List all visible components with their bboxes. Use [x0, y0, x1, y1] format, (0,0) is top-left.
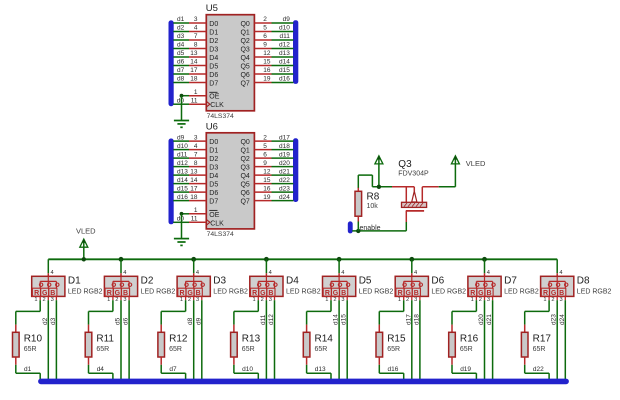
svg-text:d4: d4 [177, 42, 185, 49]
svg-text:9: 9 [263, 160, 267, 167]
svg-text:D5: D5 [209, 63, 218, 70]
svg-text:FDV304P: FDV304P [398, 170, 429, 177]
svg-text:2: 2 [263, 16, 267, 23]
svg-text:10k: 10k [367, 203, 379, 210]
svg-text:1: 1 [34, 297, 37, 303]
resistor R15 body [376, 325, 383, 365]
D2 bottom pin numbers 1 2 3 [107, 297, 126, 303]
svg-text:d6: d6 [177, 59, 185, 66]
svg-text:R15: R15 [387, 333, 406, 344]
svg-text:74LS374: 74LS374 [207, 113, 234, 120]
U5 pin 8 D3 wire, net d4 [173, 42, 206, 49]
svg-text:7: 7 [194, 151, 198, 158]
svg-text:D3: D3 [209, 46, 218, 53]
U5 pin 3 D0 wire, net d1 [173, 16, 206, 23]
svg-text:R: R [179, 290, 184, 297]
svg-text:Q1: Q1 [240, 29, 249, 36]
wire D6 pin 1 to resistor R15, net d16 [379, 296, 403, 324]
svg-text:R12: R12 [169, 333, 188, 344]
svg-text:6: 6 [263, 33, 267, 40]
U5 pin name OE with overbar [209, 92, 219, 100]
ground symbol below U6 [174, 239, 189, 246]
svg-text:15: 15 [263, 59, 271, 66]
svg-text:7: 7 [194, 33, 198, 40]
svg-text:d9: d9 [195, 317, 202, 325]
svg-text:R16: R16 [460, 333, 479, 344]
resistor R14 body [303, 325, 310, 365]
svg-text:Q6: Q6 [240, 72, 249, 79]
ground symbol below U5 [174, 121, 189, 128]
svg-text:4: 4 [487, 270, 490, 276]
resistor R10 body [13, 325, 20, 365]
svg-text:4: 4 [123, 270, 126, 276]
wire D4 pin 2 to bus, net d11 [265, 296, 267, 380]
svg-text:16: 16 [263, 67, 271, 74]
wire R10 bottom to bus, net d1 [16, 365, 40, 380]
U5 pin 19 Q7 wire, net d16 [254, 76, 293, 83]
svg-text:Q2: Q2 [240, 38, 249, 45]
svg-text:3: 3 [194, 16, 198, 23]
svg-text:D4: D4 [209, 55, 218, 62]
U6 right output bus [293, 139, 298, 202]
svg-text:1: 1 [398, 297, 401, 303]
svg-text:1: 1 [194, 207, 198, 214]
svg-text:D7: D7 [504, 276, 517, 287]
svg-text:d16: d16 [177, 194, 188, 201]
svg-text:d8: d8 [177, 76, 185, 83]
svg-text:D6: D6 [431, 276, 444, 287]
resistor R16 body [449, 325, 456, 365]
svg-text:G: G [478, 290, 484, 297]
svg-text:14: 14 [190, 59, 198, 66]
svg-text:G: G [187, 290, 193, 297]
svg-text:LED RGB2: LED RGB2 [286, 289, 321, 296]
svg-text:d0: d0 [177, 97, 185, 104]
power flag arrow VLED at Q3 drain [451, 156, 459, 164]
svg-text:65R: 65R [460, 346, 473, 353]
wire D3 pin 3 to bus, net d9 [201, 296, 203, 380]
svg-text:3: 3 [196, 297, 199, 303]
U5 pin 6 Q2 wire, net d11 [254, 33, 293, 40]
svg-text:5: 5 [263, 143, 267, 150]
wire rail to D6 pin 4 [412, 259, 417, 276]
wire rail to D1 pin 4 [48, 259, 53, 276]
svg-text:Q7: Q7 [240, 80, 249, 87]
wire rail to D7 pin 4 [485, 259, 490, 276]
wire D3 pin 2 to bus, net d8 [193, 296, 195, 380]
svg-text:13: 13 [190, 168, 198, 175]
svg-text:LED RGB2: LED RGB2 [431, 289, 466, 296]
wire D8 pin 1 to resistor R17, net d22 [525, 296, 549, 324]
svg-text:2: 2 [406, 297, 409, 303]
U5 pin 12 Q4 wire, net d13 [254, 50, 293, 57]
wire D1 pin 2 to bus, net d2 [47, 296, 49, 380]
svg-text:D1: D1 [209, 29, 218, 36]
svg-text:65R: 65R [387, 346, 400, 353]
wire D2 pin 1 to resistor R11, net d4 [89, 296, 113, 324]
U6 pin 11 CLK wire, net d0 [173, 216, 206, 223]
svg-text:3: 3 [414, 297, 417, 303]
U6 pin 7 D2 wire, net d11 [173, 151, 206, 158]
svg-text:d5: d5 [177, 50, 185, 57]
svg-text:d0: d0 [177, 216, 185, 223]
svg-text:11: 11 [191, 216, 198, 223]
svg-text:4: 4 [194, 143, 198, 150]
svg-text:G: G [42, 290, 48, 297]
svg-text:d13: d13 [279, 50, 290, 57]
U5 pin 2 Q0 wire, net d9 [254, 16, 293, 23]
svg-text:2: 2 [333, 297, 336, 303]
svg-text:d13: d13 [177, 168, 188, 175]
svg-text:R: R [252, 290, 257, 297]
svg-text:Q0: Q0 [240, 139, 249, 146]
svg-text:G: G [551, 290, 557, 297]
wire R11 bottom to bus, net d4 [89, 365, 113, 380]
svg-text:9: 9 [263, 42, 267, 49]
svg-text:d15: d15 [279, 67, 290, 74]
svg-text:Q5: Q5 [240, 181, 249, 188]
junction node rail to D3 anode [191, 257, 196, 262]
svg-text:LED RGB2: LED RGB2 [504, 289, 539, 296]
svg-text:Q1: Q1 [240, 147, 249, 154]
svg-text:B: B [559, 290, 564, 297]
svg-text:3: 3 [194, 134, 198, 141]
svg-text:d11: d11 [280, 33, 291, 40]
svg-text:d8: d8 [187, 317, 194, 325]
U5 pin 4 D1 wire, net d2 [173, 25, 206, 32]
U6 pin 4 D1 wire, net d10 [173, 143, 206, 150]
svg-text:OE: OE [209, 212, 219, 219]
svg-text:3: 3 [51, 297, 54, 303]
U5 pin 7 D2 wire, net d3 [173, 33, 206, 40]
svg-text:65R: 65R [24, 346, 37, 353]
svg-text:D0: D0 [209, 21, 218, 28]
svg-text:2: 2 [479, 297, 482, 303]
D4 bottom pin numbers 1 2 3 [253, 297, 272, 303]
svg-text:2: 2 [188, 297, 191, 303]
svg-text:D3: D3 [209, 164, 218, 171]
U6 pin 17 D6 wire, net d15 [173, 185, 206, 192]
D7 bottom pin numbers 1 2 3 [471, 297, 490, 303]
svg-text:d24: d24 [279, 194, 290, 201]
U5 pin 9 Q3 wire, net d12 [254, 42, 293, 49]
U5 right output bus [293, 21, 298, 84]
junction node R8 bottom on enable wire [356, 229, 360, 233]
svg-text:Q0: Q0 [240, 21, 249, 28]
svg-text:2: 2 [261, 297, 264, 303]
svg-text:B: B [50, 290, 55, 297]
U6 pin 1 OE wire [182, 207, 207, 214]
svg-text:17: 17 [190, 67, 198, 74]
svg-text:14: 14 [190, 177, 198, 184]
svg-text:CLK: CLK [210, 102, 224, 109]
LED D1 LED RGB2 body [32, 276, 65, 297]
svg-text:d23: d23 [551, 314, 558, 325]
svg-text:d1: d1 [177, 16, 185, 23]
svg-text:3: 3 [269, 297, 272, 303]
D8 bottom pin numbers 1 2 3 [543, 297, 562, 303]
D1 bottom pin numbers 1 2 3 [34, 297, 53, 303]
svg-text:R17: R17 [533, 333, 552, 344]
svg-text:3: 3 [123, 297, 126, 303]
svg-text:d24: d24 [559, 314, 566, 325]
svg-text:d11: d11 [177, 151, 188, 158]
svg-text:d23: d23 [279, 185, 290, 192]
svg-text:Q7: Q7 [240, 198, 249, 205]
LED D6 LED RGB2 body [395, 276, 428, 297]
svg-text:VLED: VLED [76, 227, 96, 236]
svg-text:R11: R11 [96, 333, 114, 344]
svg-text:d21: d21 [279, 168, 290, 175]
svg-text:6: 6 [263, 151, 267, 158]
svg-text:R: R [470, 290, 475, 297]
enable bus entry stub [348, 222, 352, 233]
svg-text:d16: d16 [279, 76, 290, 83]
svg-text:65R: 65R [96, 346, 109, 353]
svg-text:4: 4 [559, 270, 562, 276]
svg-text:d2: d2 [177, 25, 185, 32]
svg-text:d6: d6 [123, 317, 130, 325]
U5 pin 11 CLK wire, net d0 [173, 97, 206, 104]
U6 pin 5 Q1 wire, net d18 [254, 143, 293, 150]
svg-text:65R: 65R [315, 346, 328, 353]
svg-text:LED RGB2: LED RGB2 [141, 289, 176, 296]
wire D1 pin 3 to bus, net d3 [55, 296, 57, 380]
svg-text:12: 12 [263, 168, 271, 175]
D6 bottom pin numbers 1 2 3 [398, 297, 417, 303]
svg-text:Q3: Q3 [398, 159, 412, 170]
svg-text:D1: D1 [209, 147, 218, 154]
U5 pin 1 OE wire [182, 89, 207, 96]
svg-text:1: 1 [180, 297, 183, 303]
svg-text:65R: 65R [169, 346, 182, 353]
svg-text:d14: d14 [279, 59, 290, 66]
svg-text:4: 4 [269, 270, 272, 276]
VLED rail wire across LED row [48, 258, 557, 260]
IC U5 74LS374 body [206, 15, 254, 111]
svg-text:U5: U5 [206, 3, 218, 14]
svg-text:B: B [486, 290, 491, 297]
wire D6 pin 3 to bus, net d18 [419, 296, 421, 380]
wire rail to D3 pin 4 [194, 259, 199, 276]
wire from source power flag down to junction [378, 164, 380, 187]
IC U6 74LS374 body [206, 133, 254, 229]
svg-text:17: 17 [190, 185, 198, 192]
svg-text:B: B [341, 290, 346, 297]
svg-text:1: 1 [194, 89, 198, 96]
svg-text:18: 18 [190, 76, 198, 83]
junction node rail to D5 anode [337, 257, 342, 262]
LED D3 LED RGB2 body [177, 276, 210, 297]
svg-text:4: 4 [194, 25, 198, 32]
svg-text:CLK: CLK [210, 220, 224, 227]
svg-text:R14: R14 [315, 333, 334, 344]
svg-text:R8: R8 [367, 192, 380, 203]
svg-text:4: 4 [414, 270, 417, 276]
svg-text:D7: D7 [209, 198, 218, 205]
wire rail to D4 pin 4 [266, 259, 271, 276]
wire D5 pin 2 to bus, net d14 [338, 296, 340, 380]
svg-text:16: 16 [263, 185, 271, 192]
svg-text:d10: d10 [177, 143, 188, 150]
svg-text:12: 12 [263, 50, 271, 57]
svg-text:1: 1 [471, 297, 474, 303]
D5 bottom pin numbers 1 2 3 [325, 297, 344, 303]
svg-text:1: 1 [253, 297, 256, 303]
junction node rail to D7 anode [482, 257, 487, 262]
svg-text:LED RGB2: LED RGB2 [577, 289, 612, 296]
svg-text:R: R [325, 290, 330, 297]
svg-text:B: B [414, 290, 419, 297]
U6 pin 2 Q0 wire, net d17 [254, 134, 293, 141]
svg-text:R: R [107, 290, 112, 297]
svg-text:d1: d1 [24, 366, 32, 373]
svg-text:4: 4 [51, 270, 54, 276]
svg-text:18: 18 [190, 194, 198, 201]
svg-text:Q3: Q3 [240, 164, 249, 171]
svg-text:8: 8 [194, 42, 198, 49]
wire D2 pin 2 to bus, net d5 [120, 296, 122, 380]
wire R14 bottom to bus, net d13 [307, 365, 331, 380]
svg-text:LED RGB2: LED RGB2 [68, 289, 103, 296]
svg-text:d17: d17 [405, 314, 412, 325]
enable wire from bus to Q3 gate [352, 222, 406, 231]
LED D8 LED RGB2 body [541, 276, 574, 297]
U6 pin 8 D3 wire, net d12 [173, 160, 206, 167]
svg-text:D5: D5 [359, 276, 372, 287]
svg-text:D5: D5 [209, 181, 218, 188]
resistor R12 body [158, 325, 165, 365]
bottom data bus [39, 379, 569, 384]
svg-text:VLED: VLED [466, 159, 486, 168]
U5 OE to ground wire [180, 94, 184, 121]
U5 pin 17 D6 wire, net d7 [173, 67, 206, 74]
svg-text:d12: d12 [268, 314, 275, 325]
svg-text:R: R [34, 290, 39, 297]
svg-text:D3: D3 [213, 276, 226, 287]
U5 left data bus [169, 21, 173, 106]
svg-text:2: 2 [551, 297, 554, 303]
svg-text:d19: d19 [460, 366, 471, 373]
U5 pin 5 Q1 wire, net d10 [254, 25, 293, 32]
svg-text:D2: D2 [209, 38, 218, 45]
svg-text:d14: d14 [177, 177, 188, 184]
svg-text:74LS374: 74LS374 [207, 231, 234, 238]
svg-text:Q3: Q3 [240, 46, 249, 53]
U5 pin 18 D7 wire, net d8 [173, 76, 206, 83]
svg-text:1: 1 [543, 297, 546, 303]
svg-text:d2: d2 [42, 317, 49, 325]
svg-text:d4: d4 [97, 366, 105, 373]
svg-text:d22: d22 [533, 366, 544, 373]
D3 bottom pin numbers 1 2 3 [180, 297, 199, 303]
svg-text:B: B [123, 290, 128, 297]
svg-text:d10: d10 [279, 25, 290, 32]
svg-text:R13: R13 [242, 333, 261, 344]
junction node VLED arrow on rail [82, 257, 86, 261]
Q3 drain pin wire to VLED flag [422, 164, 455, 187]
wire rail to D5 pin 4 [339, 259, 344, 276]
wire D6 pin 2 to bus, net d17 [411, 296, 413, 380]
wire D7 pin 1 to resistor R16, net d19 [452, 296, 476, 324]
LED D4 LED RGB2 body [250, 276, 283, 297]
svg-text:d15: d15 [177, 185, 188, 192]
resistor R13 body [231, 325, 238, 365]
U5 pin 15 Q5 wire, net d14 [254, 59, 293, 66]
svg-text:D2: D2 [141, 276, 154, 287]
svg-text:2: 2 [263, 134, 267, 141]
svg-text:d5: d5 [115, 317, 122, 325]
U6 pin 3 D0 wire, net d9 [173, 134, 206, 141]
svg-text:G: G [260, 290, 266, 297]
wire R8 top to source junction [358, 175, 392, 191]
LED D2 LED RGB2 body [104, 276, 137, 297]
svg-text:G: G [405, 290, 411, 297]
svg-text:d7: d7 [169, 366, 177, 373]
svg-text:d9: d9 [283, 16, 291, 23]
LED D5 LED RGB2 body [323, 276, 356, 297]
svg-text:15: 15 [263, 177, 271, 184]
svg-text:D7: D7 [209, 80, 218, 87]
svg-text:8: 8 [194, 160, 198, 167]
wire D8 pin 3 to bus, net d24 [564, 296, 566, 380]
svg-text:19: 19 [263, 194, 271, 201]
wire R12 bottom to bus, net d7 [161, 365, 185, 380]
svg-text:D8: D8 [577, 276, 590, 287]
svg-text:d18: d18 [413, 314, 420, 325]
svg-text:D6: D6 [209, 190, 218, 197]
svg-text:d20: d20 [478, 314, 485, 325]
svg-text:D1: D1 [68, 276, 81, 287]
svg-text:d13: d13 [315, 366, 326, 373]
U6 pin 16 Q6 wire, net d23 [254, 185, 293, 192]
svg-text:d10: d10 [242, 366, 253, 373]
svg-text:11: 11 [191, 97, 198, 104]
wire D5 pin 1 to resistor R14, net d13 [307, 296, 331, 324]
svg-text:d3: d3 [50, 317, 57, 325]
Q3 MOSFET symbol [402, 187, 427, 222]
svg-text:U6: U6 [206, 121, 218, 132]
wire R8 bottom to enable wire [357, 216, 359, 231]
U6 pin 13 D4 wire, net d13 [173, 168, 206, 175]
svg-text:D0: D0 [209, 139, 218, 146]
svg-text:3: 3 [487, 297, 490, 303]
U5 pin 14 D5 wire, net d6 [173, 59, 206, 66]
U6 left data bus [169, 139, 173, 224]
svg-text:R: R [398, 290, 403, 297]
wire D4 pin 3 to bus, net d12 [274, 296, 276, 380]
junction node rail to D4 anode [264, 257, 269, 262]
resistor R8 body [355, 191, 362, 216]
U6 pin 6 Q2 wire, net d19 [254, 151, 293, 158]
svg-text:d3: d3 [177, 33, 185, 40]
svg-text:d12: d12 [279, 42, 290, 49]
power flag arrow VLED feeding LED row [80, 239, 88, 259]
U6 pin 15 Q5 wire, net d22 [254, 177, 293, 184]
Q3 source pin wire [392, 186, 414, 188]
svg-text:d18: d18 [279, 143, 290, 150]
svg-text:d20: d20 [279, 160, 290, 167]
wire rail to D8 pin 4 [557, 259, 562, 276]
svg-text:B: B [268, 290, 273, 297]
svg-text:d19: d19 [279, 151, 290, 158]
svg-text:4: 4 [341, 270, 344, 276]
svg-text:D6: D6 [209, 72, 218, 79]
U6 pin name OE with overbar [209, 210, 219, 218]
svg-text:d7: d7 [177, 67, 185, 74]
svg-text:Q4: Q4 [240, 173, 249, 180]
svg-text:Q6: Q6 [240, 190, 249, 197]
